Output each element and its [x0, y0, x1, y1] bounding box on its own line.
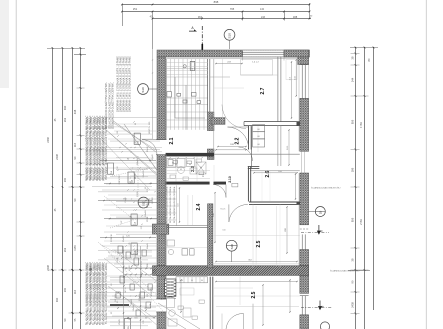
top line room 2.6 [250, 170, 300, 172]
unit3 room line [252, 304, 254, 329]
top dimension line 2 [122, 11, 310, 13]
svg-text:2.5: 2.5 [256, 240, 262, 247]
svg-text:60: 60 [258, 129, 260, 131]
interior dim string room 2.6 [254, 172, 297, 174]
interior dim string unit3 room [216, 281, 297, 283]
window sill ticks top wall [242, 57, 244, 60]
top-right corner wall block [284, 50, 309, 57]
bottom-left dense zone ticks/texts [121, 257, 122, 258]
partition 2.2/2.3 vertical [248, 126, 250, 150]
entrance door swing [142, 140, 157, 155]
svg-text:PION WENT. 160 DN UMOWNE GŁADŹ: PION WENT. 160 DN UMOWNE GŁADŹ TYNK WYLE… [103, 115, 106, 181]
unit3 fixtures left [167, 299, 175, 308]
outer top wall [157, 50, 310, 57]
unit1 black band cross tick [52, 186, 54, 188]
svg-text:2438: 2438 [47, 137, 50, 143]
right wall window lower [301, 296, 303, 315]
slab band unit1 bottom [166, 153, 212, 157]
svg-text:PION: PION [147, 202, 149, 207]
elevation arrow mid [317, 225, 320, 234]
left cluster density boost: horizontal hairlines [98, 116, 160, 118]
unit3 cabinet row [176, 277, 208, 283]
bathroom fixture boxes row [167, 92, 172, 97]
svg-text:PION W.: PION W. [111, 234, 113, 243]
mini dim room 2.2 [218, 146, 246, 148]
svg-text:856: 856 [351, 119, 355, 124]
partition block lower [207, 149, 214, 160]
room 2.3 extra fixtures [190, 168, 197, 174]
unit3 room extra lines [216, 306, 299, 308]
interior wall stub hatched [211, 118, 225, 125]
top dimension line 3 [153, 18, 312, 20]
black bar bottom-left [110, 304, 129, 306]
bathroom leader circle [183, 65, 186, 68]
svg-text:PŁYTA GRZEWCZA ZLEW LODÓWKA: PŁYTA GRZEWCZA ZLEW LODÓWKA [173, 186, 176, 223]
partition 2.4/2.6 vertical dark [247, 166, 249, 201]
svg-text:930: 930 [63, 105, 67, 110]
svg-text:1155: 1155 [73, 245, 77, 251]
outer left wall bottom stub [157, 312, 166, 329]
right wall segment A [300, 99, 309, 152]
kitchen counter edge [166, 225, 208, 227]
ceiling edge above party wall [213, 263, 300, 265]
section mark A [189, 29, 197, 31]
svg-text:2.7: 2.7 [260, 87, 266, 94]
svg-text:90x200: 90x200 [152, 196, 154, 203]
right wall dashed gap [300, 228, 309, 230]
unit3 label boxes [178, 306, 183, 309]
left wall door gap lower [156, 298, 167, 300]
svg-text:292: 292 [64, 177, 67, 182]
top wall inner face line [166, 58, 300, 60]
interior dim string room 2.4 left [179, 188, 181, 222]
svg-text:1B: 1B [318, 211, 322, 215]
right wall segment C [300, 250, 309, 266]
svg-text:2.1: 2.1 [169, 137, 175, 144]
vertical label boxes left cluster [134, 133, 140, 144]
detail bubble S10 top [224, 29, 235, 40]
bottom-left horizontal hairlines [112, 249, 157, 251]
room 2.4 faint lines [187, 195, 189, 226]
entrance door jambs [156, 139, 167, 141]
svg-text:80x46: 80x46 [147, 242, 149, 249]
cluster strong minidims [100, 160, 156, 162]
glazed line room 2.7 [277, 57, 279, 122]
unit3 vertical mini dim [180, 280, 182, 312]
unit3 diag door swing [158, 312, 186, 329]
svg-text:PŁYTA GRZEWCZA ZLEW LODÓWKA: PŁYTA GRZEWCZA ZLEW LODÓWKA [169, 186, 172, 223]
svg-text:80x46: 80x46 [147, 146, 149, 152]
dim string right of wardrobe [288, 130, 290, 165]
detail bubble S10 mid-low [226, 240, 237, 251]
y270 chain crossing line [348, 270, 370, 272]
bathroom right partition thin [207, 59, 209, 112]
svg-text:90: 90 [200, 167, 202, 169]
left wall jog block [152, 224, 169, 234]
wall 2.3/2.4 divider black [166, 182, 210, 185]
svg-text:188: 188 [293, 15, 298, 19]
svg-text:60: 60 [189, 164, 191, 166]
svg-text:90: 90 [202, 176, 204, 178]
mini dim room 2.7 [291, 62, 293, 118]
wall 2.7/2.2 divider [244, 121, 300, 123]
svg-text:VENT PL 155: VENT PL 155 [149, 121, 151, 134]
svg-text:286: 286 [351, 167, 355, 172]
room 2.3/2.4 zone densify [168, 160, 173, 166]
svg-text:292: 292 [63, 247, 67, 252]
outer left wall lower segment [157, 234, 166, 299]
svg-text:120x80: 120x80 [145, 210, 147, 218]
tick crosses cluster [119, 147, 120, 148]
right wall segment E [300, 315, 309, 329]
right chain ticks [355, 53, 357, 55]
black band extension with door gap marks [214, 182, 227, 185]
svg-text:243: 243 [261, 16, 266, 19]
svg-text:80x46: 80x46 [152, 154, 154, 160]
svg-text:1763: 1763 [359, 122, 363, 128]
svg-text:2438: 2438 [55, 154, 59, 160]
svg-text:251: 251 [133, 7, 138, 11]
svg-text:60: 60 [201, 280, 203, 282]
svg-text:ŚCIANKA DZIAŁOWA WYŻEJ: ŚCIANKA DZIAŁOWA WYŻEJ [311, 187, 340, 190]
door arc room 2.2 left [222, 105, 246, 129]
unit3 partition vertical dark [209, 277, 211, 329]
svg-text:898: 898 [214, 0, 219, 4]
svg-text:S10: S10 [230, 244, 234, 250]
svg-text:NP 110: NP 110 [137, 248, 139, 255]
bottom-left dense zone boxes [118, 246, 123, 253]
svg-text:2438: 2438 [46, 265, 50, 271]
svg-text:930: 930 [55, 297, 59, 302]
top dimension line 1 (overall) [122, 4, 310, 6]
unit3 interior light lines [213, 295, 300, 297]
faint guides [213, 59, 215, 117]
room 2.3 label boxes [170, 175, 175, 178]
svg-text:2763: 2763 [359, 219, 363, 225]
left cluster dotted leaders [112, 168, 150, 176]
outer left wall mid segment [157, 155, 166, 224]
svg-text:PION: PION [141, 261, 143, 267]
detail bubble S10 left-upper [138, 84, 149, 95]
svg-text:2.2: 2.2 [235, 137, 241, 144]
right dimension chain verticals [355, 47, 357, 329]
svg-text:292: 292 [64, 287, 67, 292]
svg-text:45: 45 [180, 169, 182, 171]
wardrobe column room 2.2 [250, 127, 252, 168]
svg-text:244: 244 [351, 77, 355, 82]
window in top wall [243, 51, 285, 53]
svg-text:JB: JB [89, 268, 93, 272]
kitchen zone extra [176, 185, 178, 225]
junction node walls/right wall [297, 122, 300, 126]
room 2.6 right dim string [295, 174, 297, 199]
stub wall room 2.10 [248, 166, 259, 168]
inner face line left wall [166, 59, 168, 140]
svg-text:60: 60 [172, 163, 174, 165]
svg-text:116: 116 [73, 142, 77, 147]
svg-text:ŚCIANKA DZIAŁOWA WYŻEJ: ŚCIANKA DZIAŁOWA WYŻEJ [330, 270, 359, 273]
svg-text:PION: PION [147, 216, 149, 221]
right wall segment D [300, 275, 309, 293]
svg-text:2.4: 2.4 [196, 203, 202, 210]
room 2.5 faint horizontal [213, 235, 300, 237]
door arc 2.3 to 2.4 [213, 185, 226, 198]
svg-text:TIL KILDE HULL RUM VINDUE KARM: TIL KILDE HULL RUM VINDUE KARM TYNK WYLE… [103, 262, 106, 325]
svg-text:438: 438 [73, 109, 77, 114]
door arc room 2.2 [228, 127, 249, 148]
partition inner face room 2.2 [213, 59, 215, 153]
svg-text:3-8.5: 3-8.5 [287, 146, 289, 150]
party wall (unit divider) [153, 266, 309, 276]
corridor diagonal leaders [112, 120, 156, 152]
leader diagonals left cluster [104, 128, 162, 178]
svg-text:795: 795 [230, 7, 235, 11]
interior dim string room 2.2 bottom [216, 149, 246, 151]
svg-text:80x46: 80x46 [131, 298, 133, 304]
section line through top wall [201, 44, 203, 51]
sheet left margin smudge [0, 0, 9, 88]
top extension lines [122, 4, 124, 26]
junction node partition/top band [207, 153, 214, 157]
bottom-right partial circle [320, 322, 329, 329]
right wall segment B [300, 173, 309, 225]
svg-text:1.4 x 2: 1.4 x 2 [252, 61, 259, 63]
horizontal dim segments left cluster [100, 147, 162, 149]
svg-text:ZASOBNIK C.W.U. Z GRZAŁKĄ ELEK: ZASOBNIK C.W.U. Z GRZAŁKĄ ELEKTR. 10 TAN… [129, 56, 132, 112]
interior dim string room 2.7 right [295, 60, 297, 96]
svg-text:2.5: 2.5 [251, 291, 257, 298]
furniture room 2.7 [241, 60, 273, 76]
party band projection tick cluster [125, 268, 126, 269]
svg-text:856: 856 [351, 217, 355, 222]
inner face line right wall [298, 59, 300, 151]
left dimension chain verticals [52, 48, 54, 329]
bathroom top horizontals [166, 62, 208, 64]
junction marks entrance [130, 167, 156, 169]
svg-text:S10: S10 [141, 87, 145, 93]
wall 2.6/2.5 horizontal dark [249, 201, 300, 203]
detail bubble S10 left-mid [138, 197, 149, 208]
svg-text:NP 50: NP 50 [135, 173, 137, 179]
left cluster density boost: ticks [133, 121, 134, 122]
wall 2.4/2.5 vertical hatched [208, 204, 213, 268]
dotted vertical leader to S10 mid [137, 156, 139, 197]
bathroom 2.1 wall-tile verticals [166, 59, 204, 130]
svg-text:90x200: 90x200 [133, 304, 135, 312]
svg-text:25x25: 25x25 [119, 318, 121, 324]
svg-text:292: 292 [63, 117, 67, 122]
unit3 mini dim [289, 280, 291, 312]
svg-text:134: 134 [260, 8, 265, 11]
left cluster haze lines [110, 123, 150, 125]
right wall window mid [301, 234, 303, 249]
room 2.5 faint verticals [255, 206, 257, 266]
svg-text:ODPŁYW: ODPŁYW [119, 175, 121, 184]
top wall window gap [243, 50, 285, 56]
interior dim string room 2.5 bottom [216, 261, 297, 263]
bathroom interior dark lines [174, 77, 176, 118]
room 2.2 interior lines [210, 76, 230, 78]
room 2.3 tick row [169, 157, 170, 158]
svg-text:60: 60 [258, 136, 260, 138]
svg-text:PŁYTA GRZEWCZA ZLEW LODÓWKA: PŁYTA GRZEWCZA ZLEW LODÓWKA [166, 186, 169, 223]
kitchen appliances [182, 249, 188, 255]
door arc room 2.4 [239, 147, 253, 161]
interior dim string room 2.7 top [216, 63, 242, 65]
svg-text:S10: S10 [228, 33, 232, 39]
outer left wall upper segment [157, 57, 166, 140]
sheet border left [15, 0, 17, 329]
left chain bottom bold cross ticks [52, 269, 54, 271]
right wall loggia gap lines [301, 151, 303, 173]
washer cross box room 2.3 [196, 162, 206, 174]
extension line x152.5 below top chain [152, 49, 154, 139]
svg-text:60: 60 [191, 280, 193, 282]
bottom extension verticals [123, 246, 125, 329]
svg-text:90x200: 90x200 [123, 235, 125, 242]
svg-text:2438: 2438 [351, 302, 355, 308]
right wall window upper [301, 65, 303, 99]
elevation circle 1B [315, 207, 325, 217]
mini dim room 2.5 [286, 207, 288, 253]
unit3 door arc [226, 313, 244, 329]
sheet border right [425, 0, 427, 329]
mini dim room 2.4 [214, 193, 216, 243]
svg-text:116: 116 [73, 289, 77, 294]
bathroom 2.1 horizontals [166, 68, 208, 127]
left chain ticks [80, 87, 82, 89]
door 2.5 leaf and arc [228, 204, 230, 222]
svg-text:NP 50: NP 50 [125, 286, 127, 292]
unit3 shaft cross-hatched block [165, 279, 176, 296]
elevation arrow low [319, 301, 322, 310]
fixtures room 2.3 [167, 159, 176, 168]
bathroom fixture boxed label [190, 62, 195, 71]
partition hatched block upper [207, 112, 214, 131]
svg-text:60: 60 [258, 144, 260, 146]
svg-text:2.10: 2.10 [228, 176, 232, 182]
room 2.10 label box [232, 183, 238, 187]
svg-text:75x21: 75x21 [220, 208, 226, 210]
